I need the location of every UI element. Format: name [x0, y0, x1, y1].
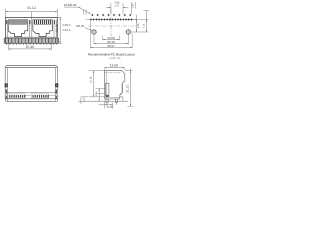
svg-text:2.54: 2.54: [132, 3, 135, 8]
svg-text:31.12: 31.12: [27, 6, 36, 10]
svg-text:Ø3.20: Ø3.20: [76, 24, 84, 28]
svg-text:6.35: 6.35: [137, 23, 140, 28]
svg-text:16-Ø0.90: 16-Ø0.90: [64, 3, 77, 7]
svg-text:10.16: 10.16: [89, 76, 92, 83]
svg-text:2-R1.6: 2-R1.6: [62, 29, 71, 32]
svg-text:13.46: 13.46: [55, 24, 59, 32]
svg-text:13.60: 13.60: [110, 63, 119, 67]
svg-text:2-Ø3.2: 2-Ø3.2: [62, 24, 71, 27]
svg-text:21.21: 21.21: [125, 85, 129, 93]
svg-text:Recommended PC Board Layout: Recommended PC Board Layout: [88, 52, 135, 56]
svg-text:3.18: 3.18: [83, 97, 86, 102]
svg-text:25.40: 25.40: [26, 45, 35, 49]
svg-text:2.54: 2.54: [95, 91, 98, 96]
svg-text:(2-Ø0.79): (2-Ø0.79): [109, 57, 120, 60]
svg-text:3.18: 3.18: [143, 23, 146, 28]
svg-text:5.20: 5.20: [107, 105, 113, 109]
svg-text:30.97: 30.97: [107, 44, 115, 48]
svg-text:1.27: 1.27: [114, 5, 119, 8]
